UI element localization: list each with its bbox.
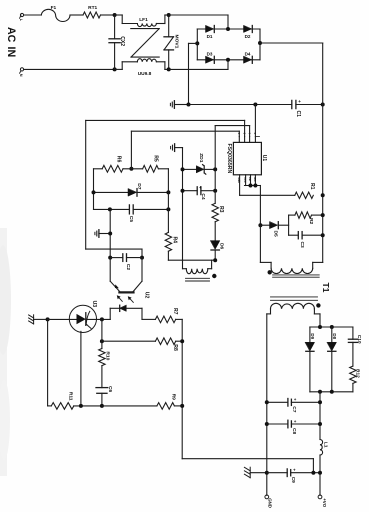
- svg-text:R1: R1: [309, 183, 315, 190]
- resistor R12: [350, 366, 356, 383]
- junction node winding: [318, 325, 322, 329]
- svg-text:L1: L1: [322, 442, 328, 448]
- svg-text:C4: C4: [200, 193, 206, 200]
- svg-text:IPK: IPK: [253, 177, 257, 181]
- junction bridge pos tap: [258, 41, 262, 45]
- wire N to CX2 node: [24, 68, 115, 70]
- primary polarity dot: [268, 270, 272, 274]
- wire fuse to RT1: [70, 14, 83, 16]
- diode D9: [309, 327, 311, 342]
- svg-text:ZD1: ZD1: [198, 153, 204, 163]
- svg-text:MOV1: MOV1: [174, 35, 180, 49]
- T1 core secondary: [271, 296, 318, 298]
- wire line A: [86, 119, 245, 121]
- junction C9 left: [265, 471, 269, 475]
- opto light arrows: [118, 296, 123, 301]
- R2C3 box left: [288, 215, 290, 235]
- junction C7 left: [265, 400, 269, 404]
- svg-text:VCC: VCC: [243, 177, 247, 183]
- svg-text:D1: D1: [207, 34, 213, 39]
- junction C6 bottom: [100, 404, 104, 408]
- diode D2: [244, 26, 252, 33]
- MOV1 varistor: [168, 15, 170, 37]
- wire AC bottom to bridge: [169, 68, 228, 70]
- wire Vcc column: [214, 126, 216, 204]
- svg-text:+VO: +VO: [322, 498, 327, 507]
- svg-text:R4: R4: [171, 237, 177, 244]
- primary rail: [189, 104, 292, 106]
- rectifier top node: [310, 326, 353, 328]
- wire G1 stub: [174, 104, 188, 106]
- svg-text:U1: U1: [261, 155, 267, 162]
- svg-text:N: N: [19, 74, 23, 77]
- junction R6 R5: [129, 167, 133, 171]
- wire R6R5 junction up: [130, 131, 132, 169]
- wire to R9: [102, 405, 157, 407]
- terminal +VO: [318, 495, 322, 499]
- svg-text:D5: D5: [273, 231, 279, 238]
- wire D7 row: [94, 191, 129, 193]
- svg-text:C10: C10: [356, 335, 362, 344]
- svg-text:CX2: CX2: [119, 36, 125, 46]
- junction C7 right: [318, 400, 322, 404]
- shunt reg U3 body: [69, 305, 96, 332]
- svg-text:C3: C3: [299, 242, 305, 249]
- junction D7 left: [92, 190, 96, 194]
- junction C8 right: [318, 422, 322, 426]
- aux winding: [182, 260, 184, 269]
- wire G4 stub: [34, 318, 48, 320]
- junction U3 node: [100, 317, 104, 321]
- svg-text:R2: R2: [308, 218, 314, 225]
- svg-text:D7: D7: [136, 183, 142, 190]
- wire U3 cathode: [86, 318, 110, 320]
- wire bridge pos to right rail: [260, 42, 323, 44]
- junction C4 right: [213, 189, 217, 193]
- resistor R9: [157, 403, 175, 410]
- svg-text:C6: C6: [107, 386, 113, 393]
- diode D5: [260, 224, 269, 226]
- svg-text:D6: D6: [219, 243, 225, 250]
- svg-text:R3: R3: [218, 206, 224, 213]
- rectifier bottom node: [310, 391, 353, 393]
- svg-text:C5: C5: [128, 216, 134, 223]
- wire bridge neg to rail: [189, 42, 198, 44]
- wire line B: [215, 125, 249, 127]
- wire R10 to C6: [101, 366, 103, 388]
- junction R2 rail: [321, 213, 325, 217]
- terminal N: [20, 68, 23, 71]
- svg-text:D9: D9: [310, 333, 315, 339]
- svg-text:IN: IN: [5, 47, 17, 58]
- svg-text:C7: C7: [291, 406, 297, 412]
- svg-text:C1: C1: [295, 111, 301, 118]
- svg-text:+: +: [298, 99, 301, 104]
- right feedback rail: [181, 319, 183, 458]
- wire G3 stub: [99, 233, 110, 235]
- junction rail bridge: [187, 103, 191, 107]
- svg-text:GND: GND: [268, 498, 273, 508]
- wire snubber to opto: [109, 209, 111, 257]
- svg-text:C9: C9: [290, 477, 296, 483]
- svg-text:R12: R12: [354, 369, 360, 378]
- U1 top pins: [238, 137, 240, 143]
- capacitor C3: [289, 234, 299, 236]
- bridge left side: [196, 29, 198, 60]
- svg-text:R9: R9: [171, 394, 177, 401]
- svg-text:D8: D8: [332, 333, 337, 339]
- svg-text:D3: D3: [207, 51, 213, 56]
- svg-text:C2: C2: [125, 264, 131, 271]
- junction bridge neg tap: [195, 41, 199, 45]
- junction R1 rail: [321, 193, 325, 197]
- fuse F1: [41, 9, 70, 21]
- junction bottom winding: [318, 390, 322, 394]
- capacitor CX2: [114, 15, 116, 39]
- LF1 top winding: [115, 14, 123, 16]
- junction C8 left: [265, 422, 269, 426]
- diode D8: [331, 327, 333, 342]
- junction MOV top: [167, 13, 171, 17]
- transformer T1 primary: [259, 225, 261, 262]
- capacitor C9: [267, 472, 287, 474]
- resistor R8: [155, 338, 175, 345]
- junction C3 rail: [321, 233, 325, 237]
- svg-text:AC: AC: [5, 27, 17, 43]
- wire line A drop: [85, 120, 87, 249]
- wire G2 stub: [175, 147, 183, 149]
- terminal GND: [265, 495, 269, 499]
- gnd rail: [266, 314, 268, 495]
- svg-text:T1: T1: [321, 283, 331, 293]
- resistor R4: [165, 232, 171, 251]
- wire AC top to bridge: [169, 14, 228, 16]
- svg-text:F1: F1: [51, 5, 57, 11]
- resistor R10: [99, 349, 105, 366]
- snubber right column: [167, 169, 169, 233]
- wire left corner: [47, 405, 49, 407]
- ground G1: [173, 101, 175, 109]
- junction ZD1 left: [181, 167, 185, 171]
- capacitor C1: [291, 100, 293, 108]
- LF1 core Z: [131, 28, 159, 30]
- feedback wire to output: [182, 458, 313, 460]
- svg-text:R6: R6: [116, 156, 122, 163]
- U1 bottom pins: [239, 175, 241, 181]
- junction bridge bottom mid: [226, 58, 230, 62]
- diode D1: [206, 26, 214, 33]
- capacitor C6: [96, 387, 108, 389]
- diode D7: [128, 189, 137, 197]
- svg-text:R11: R11: [68, 392, 74, 401]
- junction C5 right: [166, 207, 170, 211]
- junction C9 fb: [311, 471, 315, 475]
- junction rail right: [321, 103, 325, 107]
- ground G5: [249, 467, 251, 478]
- wire drain pin to rail: [254, 105, 256, 137]
- junction R9 rail: [180, 404, 184, 408]
- resistor R3: [212, 203, 218, 222]
- resistor R5: [123, 168, 143, 170]
- right DC rail: [322, 43, 324, 262]
- output rail: [319, 392, 321, 440]
- capacitor C10: [352, 327, 354, 339]
- wire U1 pins234 bus: [245, 185, 261, 187]
- svg-text:FSQ0365RN: FSQ0365RN: [226, 144, 232, 174]
- junction C4 left: [181, 189, 185, 193]
- inductor L1: [320, 440, 323, 456]
- opto U2 led: [109, 308, 111, 319]
- resistor R11: [51, 403, 74, 410]
- junction R8 rail: [180, 339, 184, 343]
- wire C5 row left: [94, 208, 130, 210]
- svg-text:R5: R5: [153, 155, 159, 162]
- junction rail drain: [253, 103, 257, 107]
- junction G4: [46, 317, 50, 321]
- LF1 bottom winding: [115, 68, 123, 70]
- wire R4 to aux: [167, 251, 169, 260]
- ground G4: [33, 315, 35, 324]
- T1 core primary: [273, 274, 320, 276]
- svg-text:FB: FB: [248, 177, 252, 181]
- ground G2: [174, 144, 176, 152]
- svg-text:U3: U3: [91, 301, 97, 308]
- wire line C: [131, 130, 239, 132]
- capacitor C4: [183, 190, 198, 192]
- junction top CX2: [113, 13, 117, 17]
- bridge right side: [259, 29, 261, 60]
- svg-text:U2: U2: [143, 292, 149, 299]
- wire RT1 to CX2 node: [101, 14, 115, 16]
- junction aux right: [213, 258, 217, 262]
- secondary polarity dot: [316, 303, 320, 307]
- junction bottom CX2: [113, 67, 117, 71]
- opto U2 transistor: [109, 258, 111, 282]
- wire R8 row: [102, 340, 155, 342]
- svg-text:D4: D4: [245, 51, 251, 56]
- wire mid branch: [101, 319, 103, 348]
- svg-text:RT1: RT1: [88, 5, 97, 11]
- snubber left side: [93, 169, 95, 210]
- wire R3 to D6: [214, 222, 216, 241]
- svg-text:R10: R10: [105, 351, 111, 360]
- resistor R1: [295, 192, 314, 198]
- capacitor C5: [128, 205, 130, 214]
- wire to U3: [48, 318, 77, 320]
- junction D5 node: [258, 223, 262, 227]
- diode D6: [211, 241, 220, 250]
- terminal L: [20, 13, 23, 16]
- wire U3 anode down: [80, 331, 82, 406]
- junction C2 right: [140, 256, 144, 260]
- aux polarity dot: [212, 274, 216, 278]
- junction C5 row: [108, 207, 112, 211]
- svg-text:UU9.8: UU9.8: [138, 71, 152, 77]
- svg-text:LF1: LF1: [139, 17, 148, 23]
- wire L to fuse: [24, 14, 42, 16]
- aux core: [186, 277, 210, 279]
- ground G3: [98, 230, 100, 238]
- bottom feedback row: [48, 405, 52, 407]
- thermistor RT1: [83, 12, 101, 18]
- diode D4: [244, 56, 252, 63]
- left rail down: [47, 319, 49, 406]
- capacitor C7: [267, 401, 288, 403]
- junction R11 U3: [79, 404, 83, 408]
- zener ZD1: [183, 168, 197, 170]
- bridge bottom row: [197, 59, 260, 61]
- svg-text:R8: R8: [172, 344, 178, 351]
- resistor R6: [94, 168, 103, 170]
- resistor R2: [289, 214, 295, 216]
- transformer T1 secondary: [267, 313, 271, 315]
- capacitor C8: [267, 423, 288, 425]
- wire R12 bottom: [352, 383, 354, 391]
- junction bridge top mid: [226, 27, 230, 31]
- junction D7 right: [166, 190, 170, 194]
- diode D3: [206, 56, 214, 63]
- wire U1 pin1 to R1: [239, 181, 241, 195]
- junction R8 left: [100, 339, 104, 343]
- junction node D8: [330, 325, 334, 329]
- junction MOV bottom: [167, 67, 171, 71]
- capacitor C2: [110, 257, 123, 259]
- svg-text:C8: C8: [291, 428, 297, 434]
- bridge top row: [197, 28, 260, 30]
- resistor R7: [142, 318, 155, 320]
- junction G3: [108, 232, 112, 236]
- junction ZD1 right: [213, 167, 217, 171]
- op-amp U1 body: [233, 142, 261, 174]
- svg-text:D2: D2: [245, 34, 251, 39]
- junction C9 right: [318, 471, 322, 475]
- junction bottom D8: [330, 390, 334, 394]
- svg-text:R7: R7: [172, 308, 178, 315]
- junction C2 left: [108, 256, 112, 260]
- wire G5 stub: [250, 472, 267, 474]
